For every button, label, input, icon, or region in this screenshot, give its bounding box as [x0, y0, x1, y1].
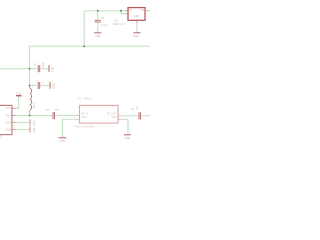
svg-text:OUT: OUT — [6, 114, 12, 117]
wire L1 bottom lead to junction — [29, 113, 31, 116]
svg-text:1: 1 — [75, 114, 76, 116]
svg-text:2: 2 — [147, 8, 148, 10]
svg-text:4.7uF: 4.7uF — [101, 24, 108, 27]
svg-text:GND: GND — [33, 120, 36, 126]
svg-text:B3913: B3913 — [84, 98, 92, 101]
svg-text:GND: GND — [95, 35, 101, 38]
node junction at C8 tap — [97, 10, 99, 12]
capacitor C4 — [53, 112, 55, 119]
wire filter right GND down — [121, 119, 128, 133]
inductor L1 — [30, 86, 32, 113]
wire left vertical from rail to cap chain — [29, 46, 31, 85]
pin OUT stub of IC1 — [145, 10, 148, 12]
svg-text:3: 3 — [14, 121, 15, 123]
svg-text:4: 4 — [126, 8, 127, 10]
svg-text:4: 4 — [14, 128, 15, 130]
pin 1 stub of U2 — [12, 107, 16, 109]
ground under C8 — [94, 32, 101, 38]
svg-text:VCC: VCC — [6, 107, 11, 110]
ground under IC1 — [133, 32, 140, 38]
op-amp U1 regulator box IC1 — [128, 8, 145, 21]
wire main RF line left part — [16, 115, 52, 117]
svg-text:IC2: IC2 — [78, 98, 83, 101]
ground right of C6 — [48, 65, 54, 72]
svg-text:100p: 100p — [54, 110, 60, 112]
svg-text:PS: PS — [0, 135, 2, 138]
svg-text:2: 2 — [75, 118, 76, 120]
capacitor C6 — [38, 65, 40, 72]
svg-text:GND: GND — [5, 129, 11, 132]
wire jog to regulator EN pin — [121, 11, 125, 14]
node junction at C6 — [29, 68, 31, 70]
svg-text:GND: GND — [133, 35, 139, 38]
svg-text:1nF: 1nF — [137, 106, 139, 111]
svg-text:3: 3 — [119, 114, 120, 116]
svg-text:3.3V: 3.3V — [16, 92, 21, 95]
pin GND right stub of IC2 — [118, 118, 121, 120]
pin IN stub of IC1 — [125, 10, 128, 12]
svg-text:100n: 100n — [42, 62, 45, 68]
pin 4 stub of U2 — [12, 129, 16, 131]
svg-text:GND: GND — [5, 121, 11, 124]
svg-text:IC1: IC1 — [114, 19, 119, 23]
svg-text:OUT: OUT — [141, 10, 146, 12]
wire net 3.3V rail horizontal — [30, 45, 151, 47]
wire main RF line after C4 — [55, 115, 76, 117]
wire filter left GND down — [63, 119, 77, 136]
node junction on rail — [83, 45, 85, 47]
svg-text:SAW_FILTER_B39: SAW_FILTER_B39 — [75, 125, 95, 128]
svg-text:2: 2 — [14, 114, 15, 116]
pin RF_OUT stub of IC2 — [118, 115, 121, 117]
wire C8 top — [97, 11, 99, 20]
ground symbol at U2 pin4 — [30, 126, 36, 132]
svg-text:GND: GND — [52, 83, 55, 89]
node junction at L1 bottom — [29, 115, 31, 117]
wire C5 to right edge — [142, 115, 150, 117]
capacitor C7 — [38, 82, 40, 89]
wire regulator OUT to edge — [148, 10, 150, 12]
capacitor C5 — [139, 112, 141, 119]
IC U2 left box partially visible — [0, 105, 12, 134]
wire off-page left at C6 row — [0, 68, 30, 70]
svg-text:4: 4 — [119, 118, 120, 120]
pin RF_IN stub of IC2 — [77, 115, 80, 117]
ground right of C7 — [49, 82, 55, 89]
pin 2 stub of U2 — [12, 115, 16, 117]
wire RF OUT to C5 — [121, 115, 138, 117]
pin EN stub of IC1 — [125, 13, 128, 15]
svg-text:GND: GND — [60, 140, 66, 143]
node junction at C7 and L1 — [29, 85, 31, 87]
wire vertical feed to regulator — [83, 11, 85, 46]
capacitor C8 — [95, 20, 101, 22]
wire C8 bottom to ground — [97, 23, 99, 32]
svg-text:ADJ: ADJ — [134, 15, 139, 18]
wire C7 to ground — [41, 85, 50, 87]
wire C6 to ground — [41, 68, 49, 70]
svg-text:GND: GND — [111, 116, 117, 119]
node junction at EN jog — [120, 10, 122, 12]
svg-text:GND: GND — [33, 127, 36, 133]
svg-text:LM1117-3.3: LM1117-3.3 — [113, 24, 126, 26]
supply symbol 3.3V — [16, 92, 22, 97]
filter box IC2 — [80, 105, 119, 123]
wire U2 pin1 to 3.3V supply — [16, 97, 19, 108]
pin GND stub of IC1 — [136, 20, 138, 23]
wire U2 pin4 to ground — [16, 129, 30, 131]
svg-text:IN: IN — [129, 9, 132, 12]
svg-text:GND: GND — [81, 116, 87, 119]
wire top rail to regulator IN — [84, 10, 125, 12]
wire C7 branch — [30, 85, 38, 87]
pin GND left stub of IC2 — [77, 118, 80, 120]
svg-text:27nH: 27nH — [33, 102, 36, 108]
wire regulator GND down — [136, 23, 138, 32]
svg-text:GND: GND — [51, 66, 54, 72]
svg-text:1: 1 — [14, 107, 15, 109]
wire C6 branch — [30, 68, 38, 70]
wire U2 pin3 to ground — [16, 122, 30, 124]
svg-text:GND: GND — [125, 137, 131, 140]
ground under filter right — [124, 134, 131, 140]
ground symbol at U2 pin3 — [30, 119, 36, 126]
pin 3 stub of U2 — [12, 122, 16, 124]
ground under filter left — [59, 136, 67, 142]
